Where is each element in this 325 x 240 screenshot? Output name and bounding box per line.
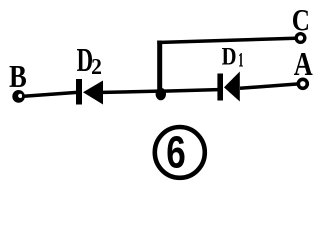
node C label xyxy=(293,10,308,31)
node B label xyxy=(10,66,27,87)
diode D2 label xyxy=(77,49,101,74)
terminal C xyxy=(296,34,305,43)
terminal A xyxy=(298,79,307,88)
diode D1 triangle xyxy=(224,72,240,102)
diode D1 cathode bar xyxy=(217,74,223,101)
diode D1 label xyxy=(222,48,243,67)
figure number 6 circle xyxy=(155,127,205,178)
wire corner to C xyxy=(157,38,295,42)
wire junction to D1 xyxy=(160,90,218,92)
wire D2 to junction xyxy=(103,91,164,92)
terminal B xyxy=(12,90,25,103)
diode D2 triangle xyxy=(83,81,103,105)
wire vertical junction to corner xyxy=(157,41,162,96)
wire B to D2 xyxy=(22,92,77,96)
wire D1 to A xyxy=(240,84,297,88)
node A label xyxy=(294,53,313,75)
diode D2 cathode bar xyxy=(76,79,82,105)
junction node xyxy=(156,88,166,101)
figure number 6 digit xyxy=(168,136,185,168)
